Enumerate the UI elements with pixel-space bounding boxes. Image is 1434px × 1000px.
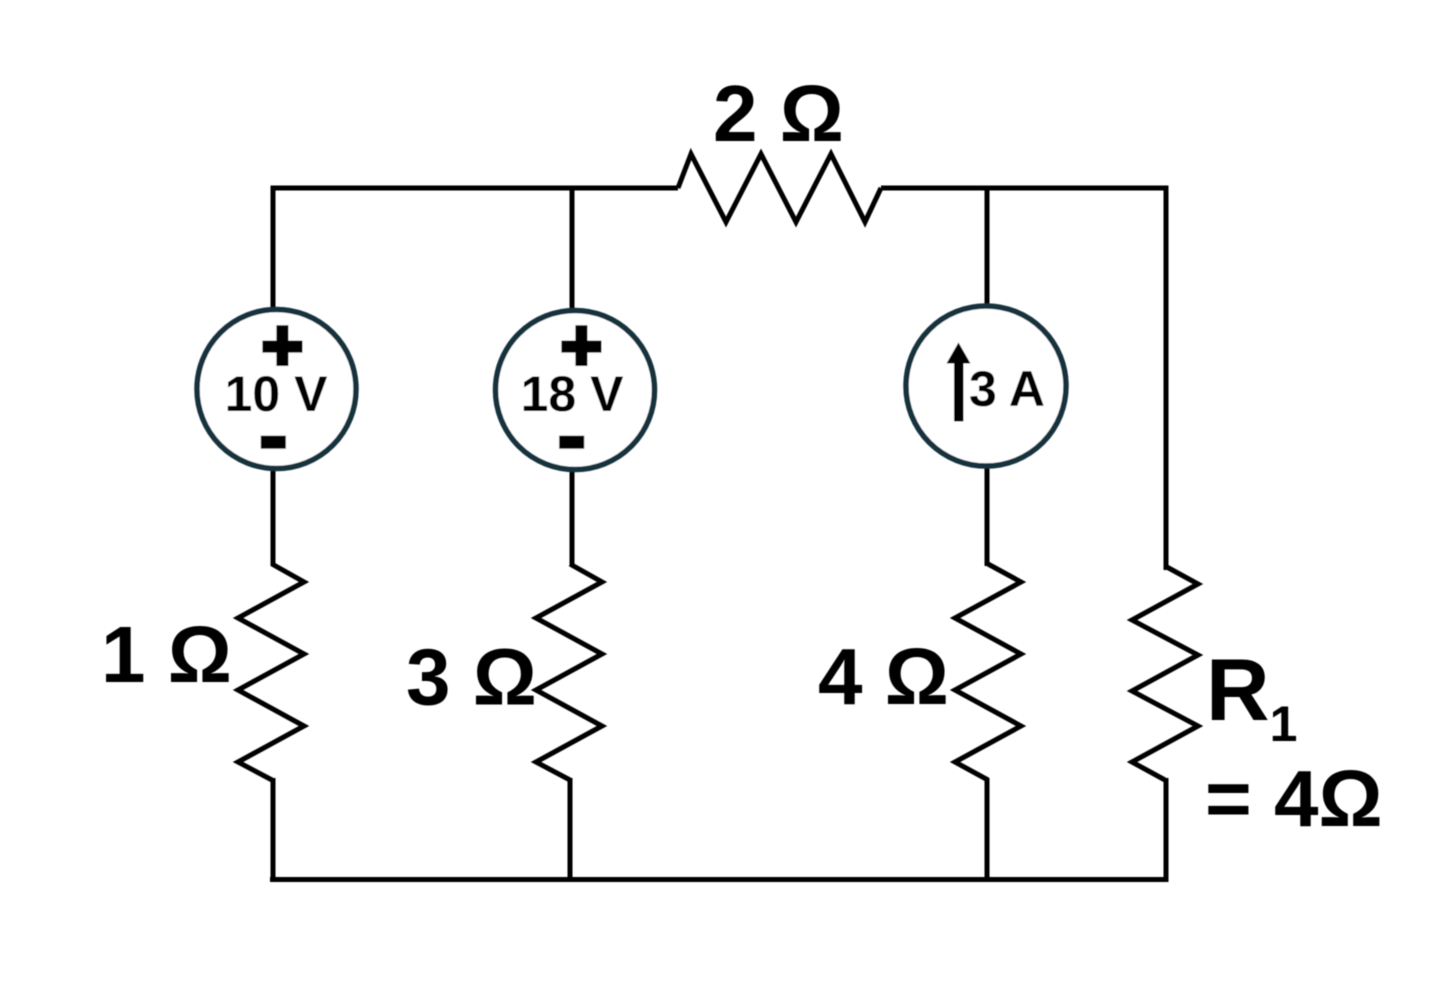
minus sign of V1 [261,436,286,449]
plus sign of V2 [561,325,601,366]
svg-text:10 V: 10 V [225,366,329,422]
voltage source V2 18 V (circle) [496,311,655,470]
svg-text:18 V: 18 V [521,366,625,422]
wire: top-left corner segment from node A down-left branch [273,188,678,312]
wire: 3 Ohm resistor to bottom wire [568,778,573,882]
voltage source V1 10 V (circle) [197,310,356,469]
current source I1 3 A (circle) [906,306,1066,466]
minus sign of V2 [559,436,584,449]
svg-text:3 Ω: 3 Ω [406,633,537,722]
svg-text:2 Ω: 2 Ω [713,69,844,158]
wire: R1 resistor to bottom wire [1164,778,1169,882]
wire: 1 Ohm resistor to bottom wire [271,778,276,882]
svg-text:1 Ω: 1 Ω [101,610,232,699]
resistor R4 4 Ohm (third branch, vertical) [955,564,1021,780]
resistor 2 Ohm (top) [678,154,881,222]
svg-text:= 4Ω: = 4Ω [1205,754,1383,843]
resistor R2 1 Ohm (left branch, vertical) [238,564,304,780]
wire: 10 V source bottom to 1 Ohm resistor [271,466,276,566]
wire: top stub of 3 A branch [985,188,990,308]
resistor R3 3 Ohm (second branch, vertical) [536,564,602,780]
wire: 3 A source bottom to 4 Ohm resistor [985,464,990,566]
svg-text:4 Ω: 4 Ω [818,632,949,721]
wire: top stub of 18 V branch [570,188,575,312]
wire: 4 Ohm resistor to bottom wire [985,778,990,882]
wire: top-right segment and right corner down to R1 [881,188,1166,570]
plus sign of V1 [262,325,302,366]
svg-text:3 A: 3 A [969,361,1045,417]
resistor R1 (right branch, vertical) [1132,566,1198,780]
arrow of current source I1 [954,360,964,422]
wire: 18 V source bottom to 3 Ohm resistor [570,468,575,566]
wire: bottom node B rail [270,877,1169,882]
